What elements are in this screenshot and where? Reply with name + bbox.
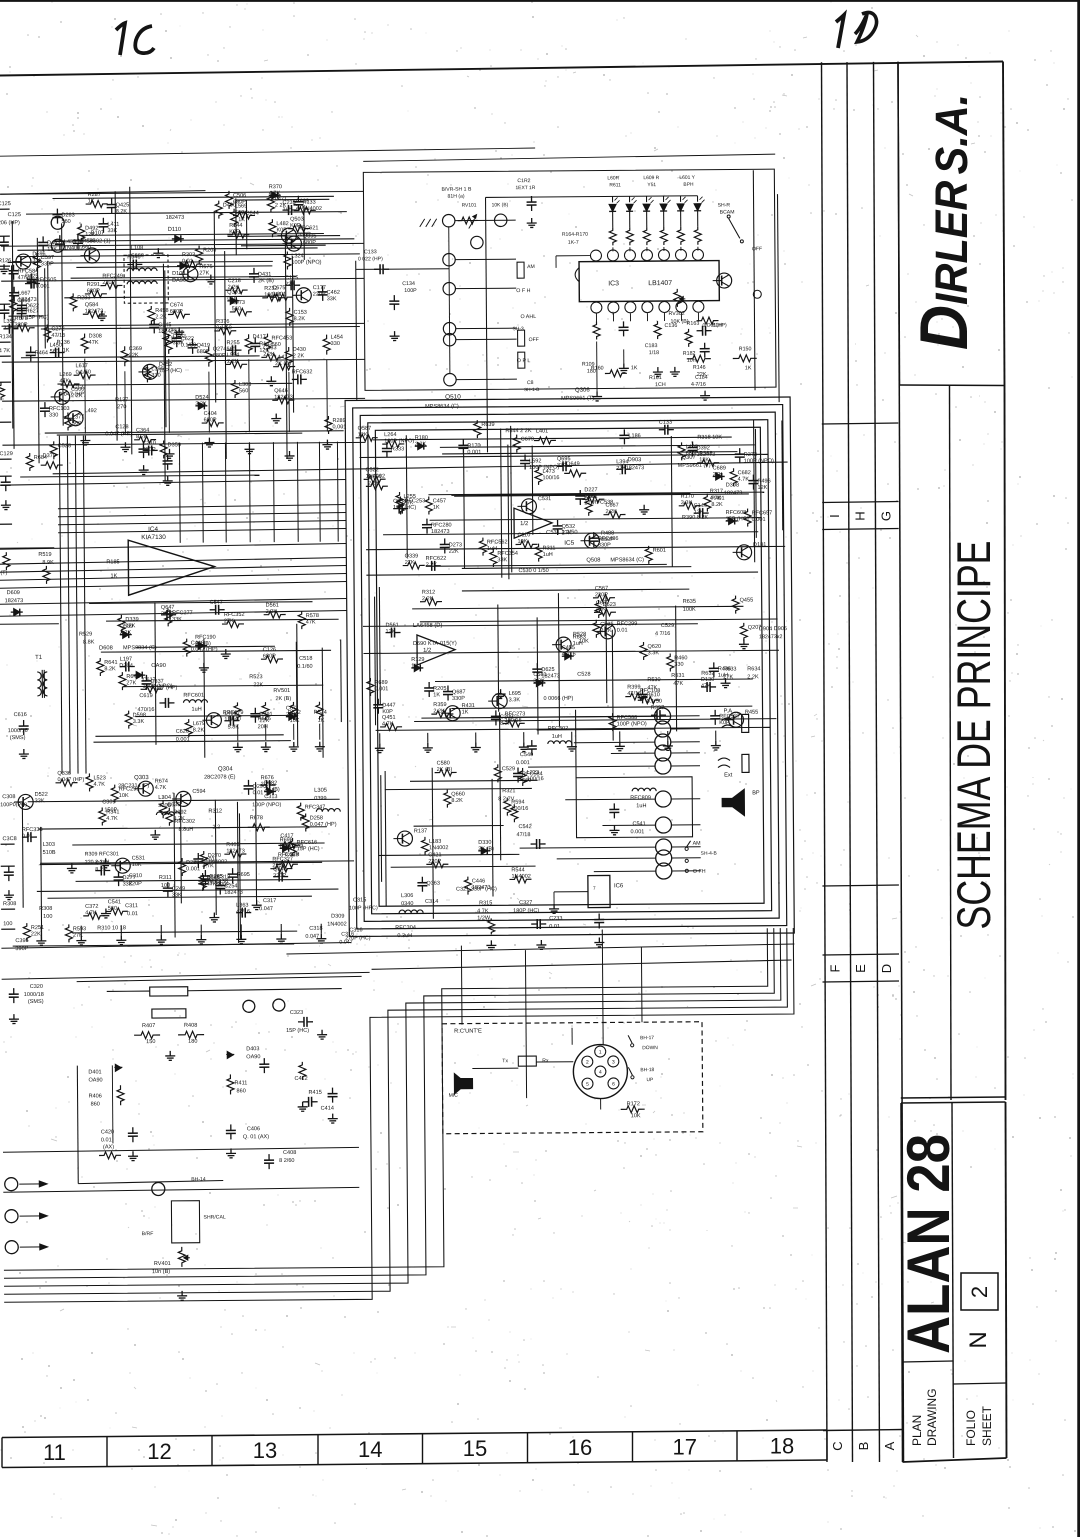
svg-text:100P0(PO): 100P0(PO) <box>0 802 27 808</box>
svg-text:RFC562: RFC562 <box>487 539 508 545</box>
svg-text:R303: R303 <box>182 252 195 258</box>
svg-text:4: 4 <box>599 1070 602 1076</box>
svg-text:R689: R689 <box>374 680 387 686</box>
svg-text:182473: 182473 <box>166 215 185 221</box>
svg-text:D431: D431 <box>258 272 271 278</box>
svg-text:Ext: Ext <box>724 772 733 778</box>
svg-text:680P: 680P <box>170 309 183 315</box>
svg-text:0.1/50: 0.1/50 <box>216 325 231 331</box>
svg-text:C177: C177 <box>313 285 326 291</box>
svg-text:47K: 47K <box>306 619 316 625</box>
svg-text:C3C8: C3C8 <box>3 836 17 842</box>
svg-text:L264: L264 <box>384 432 396 438</box>
svg-text:0.047 (HP): 0.047 (HP) <box>59 392 86 398</box>
svg-text:Q503: Q503 <box>290 217 304 223</box>
svg-text:33K: 33K <box>497 557 507 563</box>
svg-text:D: D <box>879 964 894 973</box>
svg-text:C446: C446 <box>472 878 485 884</box>
svg-text:RFC605: RFC605 <box>36 277 57 283</box>
svg-text:27K: 27K <box>405 560 415 566</box>
svg-text:206 (HP): 206 (HP) <box>0 220 20 226</box>
svg-text:C594: C594 <box>192 789 205 795</box>
svg-text:R523: R523 <box>249 674 262 680</box>
svg-text:18: 18 <box>770 1433 794 1458</box>
svg-text:R359: R359 <box>433 702 446 708</box>
svg-text:15: 15 <box>463 1436 487 1461</box>
svg-text:1N4002: 1N4002 <box>327 922 346 928</box>
svg-text:C233: C233 <box>549 916 562 922</box>
svg-text:BH-17: BH-17 <box>640 1035 654 1041</box>
svg-text:RFC338: RFC338 <box>22 827 43 833</box>
svg-text:C667: C667 <box>605 503 618 509</box>
svg-text:100P (NPO): 100P (NPO) <box>617 721 647 727</box>
svg-text:470/16: 470/16 <box>138 707 155 713</box>
svg-text:R601: R601 <box>653 548 666 554</box>
svg-text:C580: C580 <box>437 761 450 767</box>
svg-text:0.047 (HP): 0.047 (HP) <box>191 647 218 653</box>
svg-text:33K: 33K <box>172 617 182 623</box>
svg-text:8.8uH: 8.8uH <box>178 827 193 833</box>
svg-text:L617: L617 <box>76 363 88 369</box>
svg-text:Q455: Q455 <box>740 598 754 604</box>
svg-text:C134: C134 <box>402 281 415 287</box>
svg-text:3: 3 <box>612 1059 615 1065</box>
svg-text:RFC103: RFC103 <box>49 406 70 412</box>
svg-text:C455: C455 <box>562 645 575 651</box>
svg-text:R460: R460 <box>674 655 687 661</box>
svg-text:1K: 1K <box>433 692 440 698</box>
svg-text:R185: R185 <box>106 559 119 565</box>
svg-text:100P: 100P <box>404 288 417 294</box>
svg-text:C531: C531 <box>538 496 551 502</box>
svg-text:L439: L439 <box>64 239 76 245</box>
svg-text:100P (NPO): 100P (NPO) <box>252 802 281 808</box>
svg-text:RFC584: RFC584 <box>18 269 39 275</box>
svg-text:C127: C127 <box>73 385 86 391</box>
svg-text:L523: L523 <box>93 775 105 781</box>
svg-text:22K: 22K <box>129 353 139 359</box>
svg-text:R544 2 2K: R544 2 2K <box>505 428 532 434</box>
svg-text:C: C <box>830 1441 845 1450</box>
svg-text:C395: C395 <box>15 938 28 944</box>
svg-text:R578: R578 <box>306 613 319 619</box>
svg-text:C312: C312 <box>217 874 230 880</box>
svg-text:D181: D181 <box>753 542 766 548</box>
svg-text:D608: D608 <box>99 645 113 651</box>
svg-text:28C2314 (F): 28C2314 (F) <box>118 783 149 789</box>
svg-text:IC3: IC3 <box>608 280 619 287</box>
svg-text:47/16: 47/16 <box>562 652 576 658</box>
svg-text:C528: C528 <box>58 443 71 449</box>
svg-text:O F H: O F H <box>516 288 530 294</box>
svg-text:27K: 27K <box>126 680 136 686</box>
svg-text:C314: C314 <box>425 899 438 905</box>
svg-text:15P (HC): 15P (HC) <box>286 1028 309 1034</box>
svg-text:RFC657: RFC657 <box>752 510 773 516</box>
svg-text:4.7K: 4.7K <box>382 721 394 727</box>
svg-text:L303: L303 <box>239 382 251 388</box>
svg-text:1N4002: 1N4002 <box>366 474 385 480</box>
svg-text:7: 7 <box>593 886 596 891</box>
svg-text:330: 330 <box>49 412 58 418</box>
svg-text:47K: 47K <box>647 685 657 691</box>
svg-text:10K: 10K <box>631 1113 641 1119</box>
svg-text:C133: C133 <box>659 420 672 426</box>
svg-text:L303: L303 <box>43 842 55 848</box>
svg-text:R544: R544 <box>511 867 524 873</box>
svg-text:C528: C528 <box>577 672 590 678</box>
svg-text:R593: R593 <box>73 926 86 932</box>
svg-text:RFC601: RFC601 <box>183 693 204 699</box>
svg-text:100: 100 <box>161 883 170 889</box>
svg-text:33K: 33K <box>35 798 45 804</box>
svg-text:320B: 320B <box>158 803 171 809</box>
svg-text:Q290: Q290 <box>253 784 267 790</box>
svg-text:R684: R684 <box>34 455 47 461</box>
svg-text:0.01: 0.01 <box>253 790 264 796</box>
svg-text:0.047 (HP): 0.047 (HP) <box>310 822 337 828</box>
svg-text:L304: L304 <box>158 795 172 801</box>
svg-text:R161: R161 <box>649 375 662 381</box>
svg-text:R150: R150 <box>739 346 752 352</box>
svg-text:16: 16 <box>568 1435 592 1460</box>
svg-text:0.01: 0.01 <box>182 259 193 265</box>
svg-text:D304: D304 <box>119 663 134 669</box>
svg-text:RFC608: RFC608 <box>726 510 747 516</box>
svg-text:12K: 12K <box>386 629 396 635</box>
svg-text:150: 150 <box>146 1039 155 1045</box>
svg-text:0.001: 0.001 <box>516 760 530 766</box>
svg-text:D522: D522 <box>35 792 48 798</box>
svg-text:D401: D401 <box>88 1069 101 1075</box>
svg-text:RV401: RV401 <box>154 1261 171 1267</box>
svg-text:10K (B): 10K (B) <box>492 202 509 208</box>
svg-text:C506: C506 <box>233 193 246 199</box>
svg-text:1uH: 1uH <box>552 734 562 740</box>
svg-text:RV101: RV101 <box>462 202 477 208</box>
svg-text:D622: D622 <box>26 303 39 309</box>
svg-text:R611: R611 <box>609 182 621 188</box>
svg-text:0340: 0340 <box>401 901 413 907</box>
svg-text:1EXT 1R: 1EXT 1R <box>515 185 535 191</box>
svg-text:D339: D339 <box>125 617 138 623</box>
svg-text:T1: T1 <box>35 655 43 661</box>
svg-text:MPS8634 (C): MPS8634 (C) <box>425 404 459 410</box>
svg-text:0.047 (HP): 0.047 (HP) <box>151 685 178 691</box>
svg-text:1K: 1K <box>318 718 325 724</box>
svg-text:RFC299: RFC299 <box>617 621 638 627</box>
svg-text:C321 330P (HC): C321 330P (HC) <box>456 886 497 892</box>
svg-text:C153: C153 <box>294 310 307 316</box>
svg-text:R315: R315 <box>479 900 492 906</box>
svg-text:C457: C457 <box>433 498 446 504</box>
svg-text:IC6: IC6 <box>614 883 624 889</box>
svg-text:2: 2 <box>967 1286 992 1298</box>
svg-text:510B: 510B <box>43 850 56 856</box>
svg-text:C323: C323 <box>290 1010 303 1016</box>
svg-text:390P: 390P <box>15 946 28 952</box>
svg-text:2 2K: 2 2K <box>293 353 305 359</box>
svg-text:Q304: Q304 <box>218 766 233 772</box>
svg-text:Q584: Q584 <box>85 302 99 308</box>
svg-text:0.01: 0.01 <box>101 1137 112 1143</box>
svg-text:D337: D337 <box>150 679 163 685</box>
svg-text:L269: L269 <box>59 372 71 378</box>
svg-text:R631: R631 <box>671 673 684 679</box>
svg-text:C417: C417 <box>280 833 293 839</box>
svg-text:0.6uH: 0.6uH <box>285 852 300 858</box>
svg-text:R255: R255 <box>226 340 239 346</box>
svg-text:5: 5 <box>586 1082 589 1088</box>
svg-text:4 7K: 4 7K <box>477 908 489 914</box>
svg-text:100/16: 100/16 <box>527 776 544 782</box>
svg-text:C530 0 1/50: C530 0 1/50 <box>518 568 548 574</box>
svg-text:330P: 330P <box>598 542 611 548</box>
svg-text:3.3K: 3.3K <box>173 340 185 346</box>
svg-text:E: E <box>853 964 868 973</box>
svg-text:4 7K: 4 7K <box>0 348 10 354</box>
svg-text:2.2K: 2.2K <box>266 609 278 615</box>
svg-text:LB1407: LB1407 <box>648 280 672 287</box>
svg-text:C369: C369 <box>129 346 142 352</box>
svg-text:RFC304: RFC304 <box>395 925 416 931</box>
svg-text:C541: C541 <box>632 821 645 827</box>
svg-text:C462: C462 <box>327 290 340 296</box>
svg-text:R318 10K: R318 10K <box>697 435 722 441</box>
svg-text:D561: D561 <box>266 603 279 609</box>
svg-text:3.3K: 3.3K <box>681 500 693 506</box>
svg-text:10K: 10K <box>119 793 129 799</box>
svg-text:4.7K: 4.7K <box>738 477 750 483</box>
svg-text:C522: C522 <box>366 467 379 473</box>
svg-text:182473: 182473 <box>226 848 245 854</box>
svg-text:4 7K: 4 7K <box>710 496 722 502</box>
svg-text:C144: C144 <box>694 503 707 509</box>
svg-text:0.047 (HP): 0.047 (HP) <box>57 777 84 783</box>
svg-text:12K: 12K <box>125 623 135 629</box>
svg-text:I: I <box>827 514 842 518</box>
svg-text:C364: C364 <box>136 428 149 434</box>
svg-text:3.3K: 3.3K <box>533 678 545 684</box>
svg-text:4.7K: 4.7K <box>155 785 167 791</box>
svg-text:Q425: Q425 <box>116 202 130 208</box>
svg-text:D110: D110 <box>168 227 181 233</box>
svg-text:R126: R126 <box>0 258 11 264</box>
svg-text:1K-7: 1K-7 <box>568 240 579 246</box>
svg-text:L601 Y: L601 Y <box>679 175 695 181</box>
svg-text:Q687: Q687 <box>452 689 466 695</box>
svg-text:560: 560 <box>239 388 248 394</box>
svg-text:C620: C620 <box>176 729 189 735</box>
svg-text:IC5: IC5 <box>564 540 574 547</box>
svg-text:C404: C404 <box>204 411 217 417</box>
svg-text:3.3K: 3.3K <box>509 697 521 703</box>
svg-text:D223: D223 <box>186 860 199 866</box>
svg-text:B/RF: B/RF <box>142 1231 154 1237</box>
svg-text:C1R2: C1R2 <box>517 178 530 184</box>
svg-text:D473: D473 <box>232 300 245 306</box>
svg-text:C110: C110 <box>517 532 530 538</box>
svg-text:RFC249: RFC249 <box>102 273 123 279</box>
svg-text:SH-3: SH-3 <box>513 326 524 332</box>
svg-text:680P: 680P <box>303 240 316 246</box>
svg-text:R170: R170 <box>681 494 694 500</box>
svg-text:D273: D273 <box>449 542 462 548</box>
svg-text:C531 2 2/50: C531 2 2/50 <box>546 530 577 536</box>
svg-text:D623: D623 <box>603 602 616 608</box>
svg-text:R641: R641 <box>104 660 117 666</box>
svg-text:3.3K: 3.3K <box>648 650 660 656</box>
svg-text:D258: D258 <box>310 815 323 821</box>
svg-text:C320: C320 <box>30 984 43 990</box>
svg-text:L60R: L60R <box>607 175 619 181</box>
svg-text:47/16: 47/16 <box>51 333 65 339</box>
svg-text:(SMS): (SMS) <box>10 735 26 741</box>
svg-text:MPS9661 (T): MPS9661 (T) <box>561 396 594 402</box>
svg-text:R632: R632 <box>701 671 714 677</box>
svg-text:330P: 330P <box>217 882 230 888</box>
svg-text:0 0066 (HP): 0 0066 (HP) <box>543 696 573 702</box>
svg-text:B: B <box>856 1442 871 1451</box>
svg-text:47/16: 47/16 <box>627 691 641 697</box>
svg-text:DRAWING: DRAWING <box>925 1388 939 1446</box>
svg-text:SH-R: SH-R <box>718 202 731 208</box>
svg-text:RFC277: RFC277 <box>172 610 193 616</box>
svg-text:D130: D130 <box>701 677 714 683</box>
svg-text:L554: L554 <box>227 352 239 358</box>
svg-text:Q274: Q274 <box>213 346 227 352</box>
svg-text:C529: C529 <box>502 766 515 772</box>
svg-text:C412: C412 <box>294 1076 307 1082</box>
svg-text:C327: C327 <box>519 900 532 906</box>
svg-text:R291: R291 <box>87 282 100 288</box>
svg-text:Q647: Q647 <box>161 605 175 611</box>
svg-text:RFC453: RFC453 <box>271 335 292 341</box>
svg-text:4 7/16: 4 7/16 <box>655 631 670 637</box>
svg-text:220P: 220P <box>313 291 326 297</box>
svg-text:1N4002: 1N4002 <box>511 874 530 880</box>
svg-text:3.3K: 3.3K <box>195 401 207 407</box>
svg-text:182473: 182473 <box>626 465 645 471</box>
svg-text:R678: R678 <box>250 815 263 821</box>
svg-text:1K: 1K <box>411 663 418 669</box>
svg-text:RFC303: RFC303 <box>283 844 304 850</box>
svg-text:1N4002: 1N4002 <box>429 845 448 851</box>
svg-text:RFC280: RFC280 <box>431 522 452 528</box>
svg-text:SCHEMA DE PRINCIPE: SCHEMA DE PRINCIPE <box>947 541 1000 930</box>
svg-text:SHEET: SHEET <box>980 1405 994 1446</box>
svg-text:860: 860 <box>91 1101 100 1107</box>
svg-text:C315: C315 <box>353 897 366 903</box>
svg-text:C675: C675 <box>272 285 285 291</box>
svg-text:AM: AM <box>693 841 702 847</box>
svg-text:R406: R406 <box>89 1093 102 1099</box>
svg-text:0.047: 0.047 <box>259 906 273 912</box>
svg-text:R529: R529 <box>79 632 92 638</box>
svg-text:220P: 220P <box>595 592 608 598</box>
svg-text:O AHL: O AHL <box>520 314 536 320</box>
svg-text:100P (NPO): 100P (NPO) <box>529 465 559 471</box>
svg-text:D598: D598 <box>133 712 146 718</box>
svg-text:6: 6 <box>612 1081 615 1087</box>
svg-text:11: 11 <box>43 1440 66 1465</box>
svg-text:R634: R634 <box>747 666 760 672</box>
svg-text:22K: 22K <box>31 931 41 937</box>
svg-text:1/2W: 1/2W <box>477 915 491 921</box>
svg-text:180P (HC): 180P (HC) <box>513 908 539 914</box>
svg-text:RFC273: RFC273 <box>505 711 526 717</box>
svg-text:(T): (T) <box>0 570 7 576</box>
svg-text:RFC622: RFC622 <box>426 556 447 562</box>
svg-text:12K: 12K <box>358 432 368 438</box>
svg-text:L408: L408 <box>686 444 698 450</box>
svg-text:R129: R129 <box>411 657 424 663</box>
svg-text:330P: 330P <box>273 873 286 879</box>
svg-text:R676: R676 <box>261 775 274 781</box>
svg-text:D903: D903 <box>628 457 642 463</box>
svg-text:UP: UP <box>646 1077 654 1083</box>
svg-text:OA90: OA90 <box>151 663 166 669</box>
svg-text:D330: D330 <box>478 840 491 846</box>
svg-text:C531: C531 <box>132 856 145 862</box>
svg-text:Q336: Q336 <box>57 771 71 777</box>
svg-text:1K: 1K <box>88 198 95 204</box>
svg-text:P.A: P.A <box>724 708 733 714</box>
svg-text:C619: C619 <box>139 693 152 699</box>
svg-text:1K: 1K <box>462 709 469 715</box>
svg-text:RFC621: RFC621 <box>298 225 319 231</box>
svg-text:C372: C372 <box>85 904 98 910</box>
svg-text:8.2K: 8.2K <box>116 209 128 215</box>
svg-text:AM: AM <box>527 264 535 270</box>
svg-text:C547: C547 <box>210 600 223 606</box>
svg-text:R415: R415 <box>309 1090 322 1096</box>
svg-text:B/VR-SH 1 B: B/VR-SH 1 B <box>441 187 472 193</box>
svg-text:RFC632: RFC632 <box>292 369 313 375</box>
svg-text:C183: C183 <box>645 343 658 349</box>
svg-text:C689: C689 <box>713 465 726 471</box>
svg-text:8 2/60: 8 2/60 <box>279 1158 294 1164</box>
svg-text:R205: R205 <box>433 686 446 692</box>
svg-text:27K: 27K <box>224 618 234 624</box>
svg-text:1: 1 <box>599 1050 602 1056</box>
svg-text:C308: C308 <box>2 794 15 800</box>
svg-text:Q363: Q363 <box>426 881 440 887</box>
svg-text:R530: R530 <box>647 677 660 683</box>
svg-text:DOWN: DOWN <box>642 1045 658 1051</box>
svg-text:0.001: 0.001 <box>467 450 481 456</box>
svg-text:R317: R317 <box>710 489 723 495</box>
svg-text:L454: L454 <box>331 335 343 341</box>
svg-text:560: 560 <box>232 306 241 312</box>
svg-text:182473: 182473 <box>274 395 293 401</box>
svg-text:F: F <box>828 964 843 972</box>
svg-text:BP: BP <box>752 790 760 796</box>
svg-text:100K: 100K <box>683 607 696 613</box>
svg-text:R321: R321 <box>502 788 515 794</box>
svg-text:0.01: 0.01 <box>617 628 628 634</box>
svg-text:BCAM: BCAM <box>720 209 735 215</box>
svg-text:0.3uH: 0.3uH <box>397 933 412 939</box>
svg-text:330: 330 <box>674 662 683 668</box>
svg-text:C125: C125 <box>285 275 298 281</box>
svg-text:C542: C542 <box>518 824 531 830</box>
svg-text:47K: 47K <box>701 683 711 689</box>
svg-text:680P: 680P <box>87 288 100 294</box>
svg-text:10K (B): 10K (B) <box>670 319 688 325</box>
svg-text:RV501: RV501 <box>273 688 290 694</box>
svg-text:680P: 680P <box>263 653 276 659</box>
